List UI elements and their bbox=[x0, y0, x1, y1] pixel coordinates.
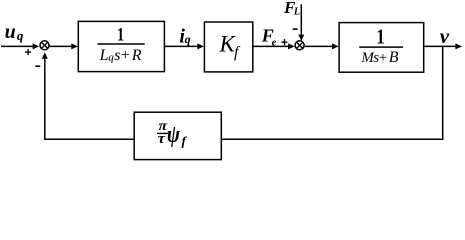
wire F_L into summing junction 2 bbox=[298, 4, 304, 41]
minus sign for feedback at summing junction 1 bbox=[35, 65, 40, 67]
wire input u_q to summing junction 1 bbox=[1, 43, 39, 49]
wire block G2 to output v bbox=[424, 43, 462, 49]
wire feedback tap down from v bbox=[442, 46, 444, 139]
svg-text:+: + bbox=[121, 47, 130, 64]
node i_q label bbox=[179, 26, 190, 48]
svg-text:L: L bbox=[99, 47, 109, 64]
svg-text:1: 1 bbox=[376, 25, 384, 49]
plus sign at summing junction 1 bbox=[25, 49, 31, 55]
wire block Kf to summing junction 2 bbox=[253, 43, 295, 49]
node u_q input label bbox=[5, 21, 24, 43]
plus sign at summing junction 2 bbox=[282, 39, 288, 45]
svg-text:B: B bbox=[389, 49, 399, 66]
svg-text:R: R bbox=[131, 47, 142, 64]
block G2 transfer function 1/(Ms + B) bbox=[339, 23, 424, 73]
wire feedback bottom left segment bbox=[45, 138, 134, 140]
svg-text:+: + bbox=[379, 50, 387, 66]
minus sign for F_L at summing junction 2 bbox=[293, 28, 298, 30]
block H feedback gain (pi/tau) psi_f bbox=[134, 112, 221, 159]
svg-text:q: q bbox=[185, 32, 191, 46]
node F_L disturbance label bbox=[283, 0, 300, 17]
summing junction 2 bbox=[295, 41, 304, 50]
wire summing junction 1 to block G1 bbox=[50, 43, 78, 49]
svg-text:v: v bbox=[440, 24, 450, 48]
svg-text:L: L bbox=[293, 6, 300, 17]
wire summing junction 2 to block G2 bbox=[305, 43, 339, 49]
summing junction 1 bbox=[40, 41, 49, 50]
svg-text:ψ: ψ bbox=[167, 122, 181, 148]
wire feedback up into summing junction 1 bbox=[42, 52, 48, 140]
svg-text:q: q bbox=[17, 28, 24, 43]
block Kf force constant bbox=[204, 22, 252, 72]
wire block G1 to block Kf bbox=[164, 43, 204, 49]
node F_e label bbox=[261, 25, 277, 48]
svg-text:1: 1 bbox=[117, 26, 124, 46]
svg-text:u: u bbox=[5, 21, 16, 43]
block G1 transfer function 1/(Lq s + R) bbox=[78, 21, 164, 71]
wire feedback bottom right segment bbox=[222, 138, 444, 140]
svg-text:s: s bbox=[114, 47, 120, 64]
